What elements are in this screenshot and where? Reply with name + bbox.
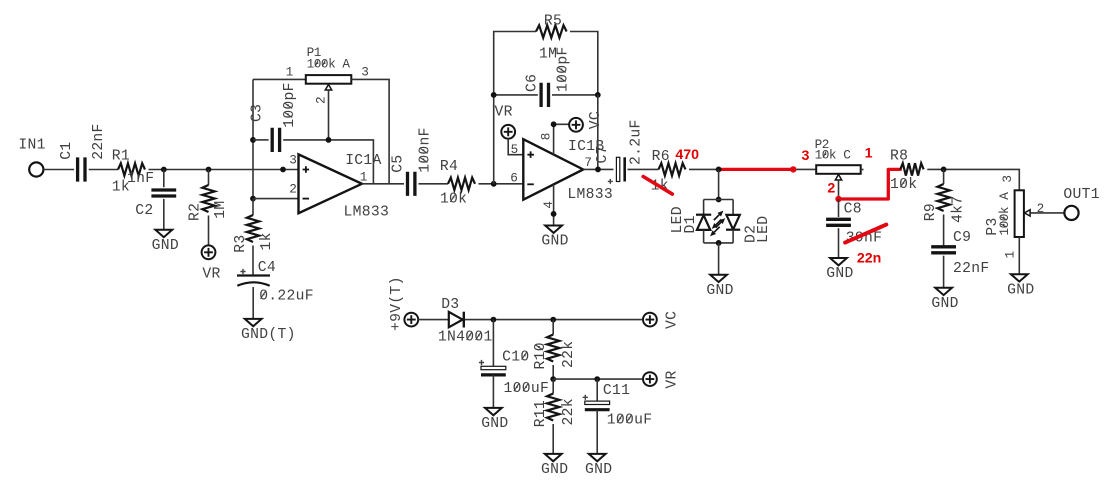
svg-text:C2: C2 <box>135 203 153 219</box>
junction R10/R11 <box>550 376 556 382</box>
svg-text:LM833: LM833 <box>344 205 390 221</box>
svg-text:GND: GND <box>541 462 568 478</box>
pin 1 of P3 <box>1003 251 1018 258</box>
svg-text:100k A: 100k A <box>307 56 351 71</box>
svg-text:22k: 22k <box>561 341 577 368</box>
LED left branch top <box>703 200 705 216</box>
svg-text:1k: 1k <box>259 232 275 250</box>
capacitor C10 <box>481 366 506 369</box>
pin 2 of P1 <box>314 97 329 104</box>
value 22k of R11 <box>561 398 577 425</box>
junction LED top <box>716 197 722 203</box>
svg-text:C5: C5 <box>391 155 407 173</box>
svg-text:3: 3 <box>802 148 810 164</box>
svg-text:LM833: LM833 <box>567 187 613 203</box>
svg-text:IC1A: IC1A <box>345 153 381 169</box>
capacitor C3 <box>272 128 279 152</box>
resistor R2 <box>202 185 214 212</box>
supply +9V(T) terminal <box>404 313 418 327</box>
value 1k of R3 <box>259 232 275 250</box>
label D1 <box>683 215 699 233</box>
svg-text:GND: GND <box>585 462 612 478</box>
wire IN1 to C1 <box>44 169 75 171</box>
junction node C2/R1 <box>161 167 167 173</box>
junction C6 right <box>595 92 601 98</box>
LED arrow 4 <box>714 227 720 232</box>
wire pin2 to R3 <box>252 199 254 215</box>
svg-text:R6: R6 <box>652 149 670 165</box>
label C5 <box>391 155 407 173</box>
svg-text:0.22uF: 0.22uF <box>259 289 314 305</box>
supply VR at IC1B <box>501 125 515 139</box>
wire C3 line left <box>253 139 269 141</box>
wire pin2 stub <box>253 198 299 200</box>
wire junction to R11 <box>552 379 554 393</box>
value 4k7 of R9 <box>950 196 966 223</box>
wire wiper junction to C8 <box>838 199 840 217</box>
label R3 <box>233 235 249 253</box>
svg-text:C1: C1 <box>59 142 75 160</box>
svg-text:VR: VR <box>495 105 513 121</box>
wire R3 to C4 <box>252 246 254 275</box>
value 100nF of C5 <box>417 127 433 173</box>
supply VR at R2 <box>202 245 216 259</box>
label P3 <box>985 217 1001 235</box>
LED arrow 1 <box>714 215 720 220</box>
svg-text:VR: VR <box>202 267 220 283</box>
wire feedback right vertical <box>597 95 599 169</box>
ground GND(T) under C4 <box>245 319 262 326</box>
wire pin8 to VC <box>554 124 570 154</box>
svg-text:5: 5 <box>511 142 518 157</box>
svg-text:100nF: 100nF <box>417 127 433 173</box>
svg-text:22n: 22n <box>857 251 881 267</box>
svg-text:100pF: 100pF <box>282 82 298 128</box>
wire P1 pin3 to output <box>351 79 389 183</box>
capacitor C5 <box>408 172 415 196</box>
svg-text:R11: R11 <box>533 400 549 427</box>
supply VC output <box>643 313 657 327</box>
svg-text:3: 3 <box>289 153 296 168</box>
junction pin4 wire end <box>551 211 557 217</box>
value 100pF of C3 <box>282 82 298 128</box>
svg-text:470: 470 <box>675 147 699 163</box>
label C6 <box>525 74 541 92</box>
svg-text:C6: C6 <box>525 74 541 92</box>
capacitor C6 <box>541 83 548 107</box>
wire divider to VR <box>553 378 643 380</box>
label +9V(T) <box>389 276 405 331</box>
wire VR to pin5 <box>508 139 523 155</box>
svg-text:2: 2 <box>314 97 329 104</box>
ground under IC1B <box>545 226 562 233</box>
svg-text:LED: LED <box>756 216 772 243</box>
junction pin8 corner <box>551 121 557 127</box>
junction LED bottom <box>716 240 722 246</box>
label R2 <box>187 203 203 221</box>
wire C5 to R4 <box>419 183 449 185</box>
wire junction to C2 <box>163 170 165 188</box>
svg-text:8: 8 <box>538 133 553 140</box>
svg-text:VC: VC <box>665 311 681 329</box>
wire R5 to right vertical <box>570 32 598 95</box>
wire junction to R2 <box>208 170 210 186</box>
wire feedback vertical P1.1-C3-pin2 <box>252 79 254 198</box>
svg-text:GND: GND <box>931 296 958 312</box>
wire R4 to IC1B pin6 <box>479 183 524 185</box>
supply VR output <box>643 372 657 386</box>
label LED of D2 <box>756 216 772 243</box>
op-amp IC1B <box>523 139 583 200</box>
LED D1 <box>696 214 711 216</box>
wire P2 pin1 stub <box>861 169 864 171</box>
capacitor C7 <box>616 157 619 181</box>
supply VC at IC1B <box>569 118 583 132</box>
svg-text:100pF: 100pF <box>556 46 572 92</box>
LED left branch bottom <box>703 230 705 243</box>
resistor R10 <box>547 335 559 362</box>
resistor R3 <box>247 215 259 242</box>
label VC output <box>665 311 681 329</box>
svg-text:100uF: 100uF <box>607 413 653 429</box>
svg-text:7: 7 <box>584 155 591 170</box>
wire C10 to ground <box>492 375 494 408</box>
red highlight wire P2 wiper to R8 <box>839 169 901 199</box>
label C1 <box>59 142 75 160</box>
red junction P2 wiper <box>835 196 841 202</box>
capacitor C2 <box>151 190 176 196</box>
svg-text:D3: D3 <box>441 297 459 313</box>
wire P1 wiper down <box>328 90 330 140</box>
terminal IN1 <box>29 162 43 176</box>
svg-text:2: 2 <box>827 181 835 197</box>
red highlight wire to P2 pin3 <box>719 168 794 171</box>
LED bracket top <box>704 199 734 201</box>
wire R6 to LED junction <box>689 168 719 170</box>
wire junction to C11 <box>596 379 598 401</box>
svg-text:1nF: 1nF <box>127 171 154 187</box>
label C7 <box>595 145 611 163</box>
ground under C10 <box>485 408 502 415</box>
wire junction to LED pair <box>718 169 720 199</box>
resistor R9 <box>937 184 949 211</box>
wire C8 to ground <box>838 228 840 258</box>
capacitor C4 <box>237 274 270 276</box>
junction C6 left <box>491 92 497 98</box>
svg-text:1: 1 <box>865 146 873 162</box>
resistor R8 <box>900 163 923 175</box>
svg-text:1M: 1M <box>213 201 229 219</box>
value 100k A of P3 <box>997 192 1012 236</box>
svg-text:C3: C3 <box>250 104 266 122</box>
svg-text:IN1: IN1 <box>18 138 45 154</box>
svg-text:100k A: 100k A <box>997 192 1012 236</box>
op-amp IC1A <box>299 154 362 213</box>
junction pin3 wire end <box>280 167 286 173</box>
svg-text:1: 1 <box>360 169 367 184</box>
svg-text:GND: GND <box>1007 282 1034 298</box>
svg-text:3: 3 <box>361 65 368 80</box>
capacitor C11 <box>585 401 610 404</box>
svg-text:1N4001: 1N4001 <box>438 330 493 346</box>
svg-text:3: 3 <box>1000 175 1015 182</box>
potentiometer P1 body <box>306 75 352 84</box>
junction R8/R9 <box>941 167 947 173</box>
wire IC1B output <box>583 168 613 170</box>
potentiometer P3 body <box>1015 190 1024 237</box>
svg-text:GND: GND <box>706 283 733 299</box>
wire C2 to ground <box>163 199 165 230</box>
terminal OUT1 <box>1064 206 1078 220</box>
ground under C11 <box>589 454 606 461</box>
svg-text:C7: C7 <box>595 145 611 163</box>
svg-text:1M: 1M <box>539 46 557 62</box>
wire R8 to P3 <box>927 169 1019 190</box>
LED arrow 2 <box>716 222 722 227</box>
wire R1 to IC1A pin3 <box>149 169 299 171</box>
wire junction to R9 <box>943 169 945 184</box>
svg-text:VC: VC <box>588 111 604 129</box>
wire C4 to ground <box>252 287 254 319</box>
svg-text:C10: C10 <box>502 349 529 365</box>
svg-text:GND: GND <box>152 238 179 254</box>
ground under C8 <box>830 258 847 265</box>
wire junction to C10 <box>492 320 494 367</box>
svg-text:1: 1 <box>1003 251 1018 258</box>
value 2.2uF of C7 <box>628 119 644 165</box>
junction P1 wiper on C3 line <box>326 137 332 143</box>
label LED of D1 <box>670 206 686 233</box>
label VC at IC1B <box>588 111 604 129</box>
resistor R11 <box>547 394 559 421</box>
wire R11 to ground <box>552 424 554 454</box>
annotation strike over 1k <box>643 177 672 195</box>
svg-text:C9: C9 <box>953 230 971 246</box>
svg-text:GND(T): GND(T) <box>241 327 296 343</box>
ground under R11 <box>545 454 562 461</box>
wire D3 to VC <box>465 319 643 321</box>
label R11 <box>533 400 549 427</box>
label VR output <box>665 370 681 388</box>
wire LED to ground <box>718 243 720 275</box>
junction R6/LED <box>716 167 722 173</box>
wire P3 wiper to OUT1 <box>1030 212 1064 214</box>
wire feedback left vertical <box>493 95 495 184</box>
wire R10 to R11 junction <box>552 365 554 379</box>
LED arrow 3 <box>716 219 722 224</box>
svg-text:R9: R9 <box>923 203 939 221</box>
junction C3 left <box>250 137 256 143</box>
svg-text:C11: C11 <box>603 383 630 399</box>
svg-text:100uF: 100uF <box>504 381 550 397</box>
wire C1 to R1 <box>89 169 118 171</box>
wire C7 to R6 <box>628 168 659 170</box>
svg-text:10k C: 10k C <box>815 148 852 163</box>
wire P2 wiper down <box>838 180 840 199</box>
junction R4/feedback <box>491 181 497 187</box>
wire R2 to VR supply <box>208 216 210 246</box>
pin 8 of IC1B <box>538 133 553 140</box>
junction C11 <box>594 376 600 382</box>
svg-text:R2: R2 <box>187 203 203 221</box>
wire R9 to C9 <box>943 215 945 246</box>
svg-text:22nF: 22nF <box>91 123 107 159</box>
svg-text:D1: D1 <box>683 215 699 233</box>
LED D2 <box>726 215 739 230</box>
svg-text:22k: 22k <box>561 398 577 425</box>
capacitor C9 <box>931 247 956 253</box>
LED bracket bottom <box>704 242 734 244</box>
junction output/feedback <box>595 167 601 173</box>
svg-text:C8: C8 <box>844 202 862 218</box>
label R9 <box>923 203 939 221</box>
ground under P3 <box>1011 274 1028 281</box>
wire P1 pin1 <box>253 78 306 80</box>
svg-text:OUT1: OUT1 <box>1063 187 1099 203</box>
red wire endpoint <box>790 166 796 172</box>
svg-text:R4: R4 <box>440 159 458 175</box>
diode D3 <box>449 312 463 327</box>
wire C11 to ground <box>596 410 598 454</box>
LED right branch top <box>732 200 734 215</box>
svg-text:6: 6 <box>510 170 517 185</box>
pin 3 of P3 <box>1000 175 1015 182</box>
value 22k of R10 <box>561 341 577 368</box>
junction pin2/R3 <box>250 196 256 202</box>
wire R5 loop <box>494 32 536 95</box>
wire P3 pin1 to ground <box>1018 237 1020 274</box>
svg-text:GND: GND <box>541 234 568 250</box>
capacitor C1 <box>78 157 85 181</box>
svg-text:10k: 10k <box>890 177 917 193</box>
junction node R2 <box>206 167 212 173</box>
wire +9V to D3 <box>418 319 449 321</box>
value 22nF of C1 <box>91 123 107 159</box>
svg-text:R8: R8 <box>890 148 908 164</box>
label D2 <box>744 225 760 243</box>
svg-text:R3: R3 <box>233 235 249 253</box>
svg-text:C4: C4 <box>258 260 276 276</box>
ground under LEDs <box>710 275 727 282</box>
svg-text:2: 2 <box>289 182 296 197</box>
junction C10 <box>491 317 497 323</box>
svg-text:R1: R1 <box>112 149 130 165</box>
wire C6 line <box>494 94 538 96</box>
wire C3 to output <box>283 140 373 184</box>
svg-text:1: 1 <box>286 65 293 80</box>
pin 4 of IC1B <box>541 201 556 208</box>
svg-text:GND: GND <box>826 266 853 282</box>
ground under C2 <box>155 230 172 237</box>
label C3 <box>250 104 266 122</box>
svg-text:GND: GND <box>481 416 508 432</box>
junction R10 <box>550 317 556 323</box>
LED right branch bottom <box>732 230 734 243</box>
svg-text:2.2uF: 2.2uF <box>628 119 644 165</box>
wire junction to R10 <box>552 320 554 335</box>
wire C9 to ground <box>943 256 945 288</box>
svg-text:22nF: 22nF <box>953 261 989 277</box>
svg-text:10k: 10k <box>440 192 467 208</box>
potentiometer P2 body <box>816 165 861 174</box>
value 1M of R2 <box>213 201 229 219</box>
ground under C9 <box>935 288 952 295</box>
resistor R4 <box>448 178 475 190</box>
resistor R5 <box>536 25 567 37</box>
wire IC1A output <box>362 183 404 185</box>
capacitor C8 <box>826 219 851 225</box>
resistor R6 <box>659 163 686 175</box>
wire pin4 to ground <box>553 184 555 225</box>
resistor R1 <box>118 163 145 175</box>
svg-text:4k7: 4k7 <box>950 196 966 223</box>
wire C6 right <box>552 94 598 96</box>
svg-text:VR: VR <box>665 370 681 388</box>
svg-text:+9V(T): +9V(T) <box>389 276 405 331</box>
value 100pF of C6 <box>556 46 572 92</box>
svg-text:R5: R5 <box>544 13 562 29</box>
wire under red to P2 <box>719 168 817 170</box>
label R10 <box>533 342 549 369</box>
svg-text:R10: R10 <box>533 342 549 369</box>
annotation strike over 39nF <box>845 225 886 243</box>
